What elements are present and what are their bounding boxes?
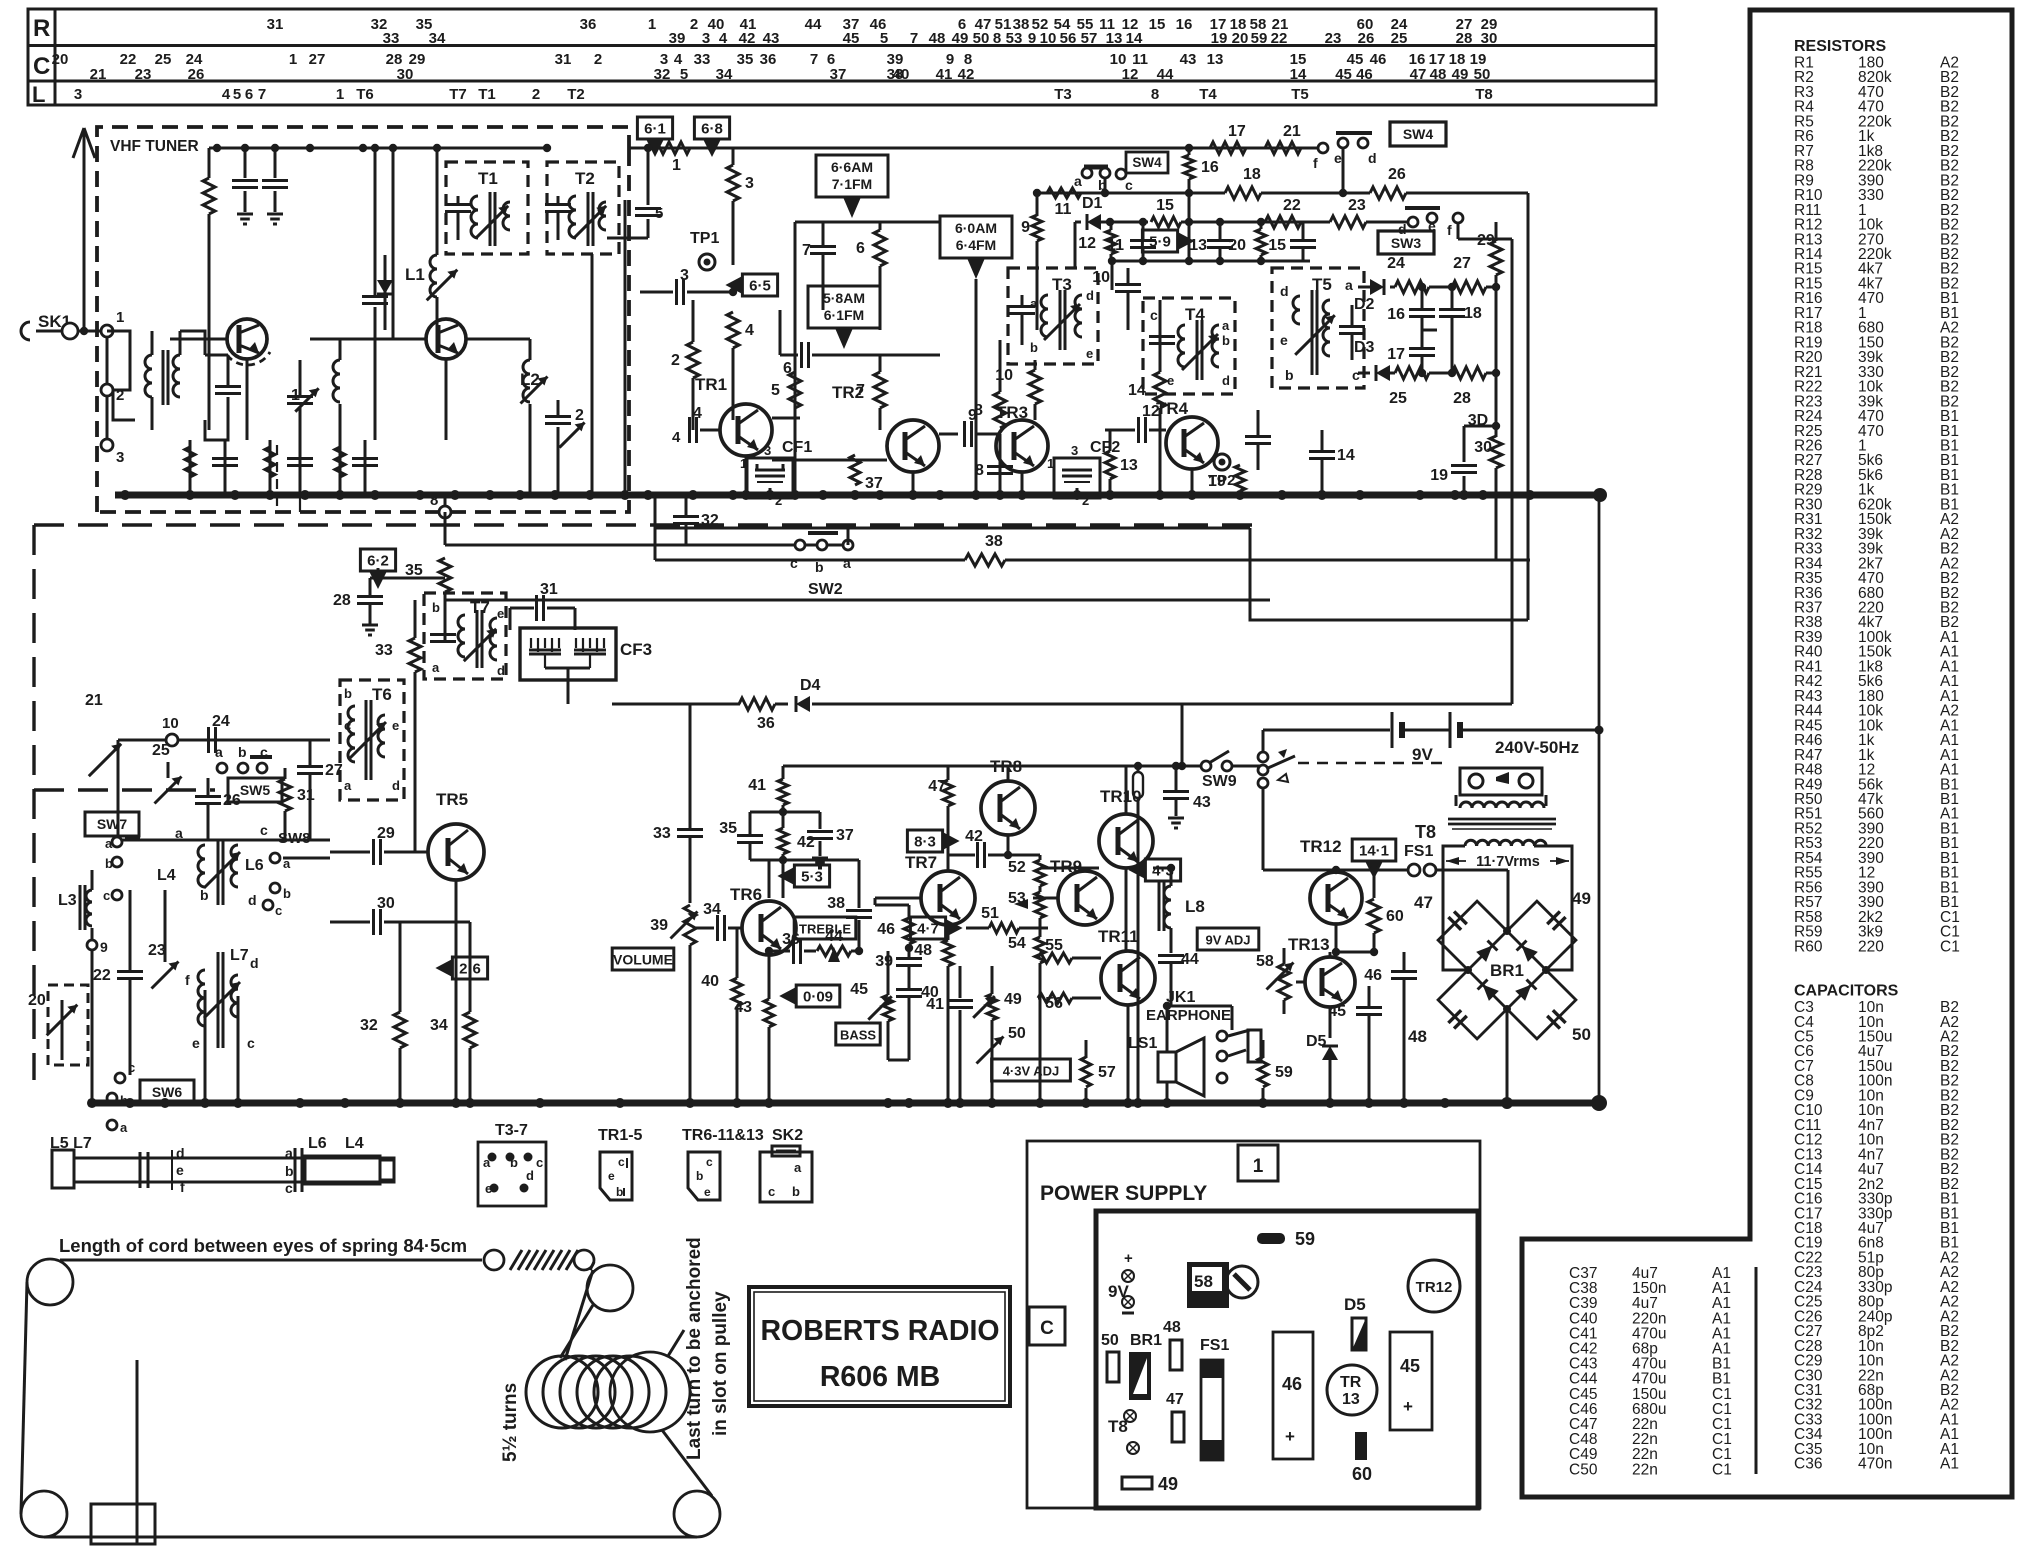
svg-text:7: 7 <box>810 51 818 68</box>
svg-text:13: 13 <box>1120 457 1138 474</box>
svg-text:48: 48 <box>929 30 946 47</box>
svg-text:43: 43 <box>734 999 752 1016</box>
svg-text:c: c <box>103 888 110 903</box>
svg-text:b: b <box>432 600 440 615</box>
svg-text:EARPHONE: EARPHONE <box>1146 1007 1231 1024</box>
svg-text:e: e <box>392 718 399 733</box>
svg-text:2: 2 <box>690 16 698 33</box>
svg-text:55: 55 <box>1045 937 1063 954</box>
svg-text:59: 59 <box>1251 30 1268 47</box>
svg-text:25: 25 <box>152 742 170 759</box>
svg-text:19: 19 <box>1430 467 1448 484</box>
svg-text:33: 33 <box>694 51 711 68</box>
svg-text:4·7: 4·7 <box>917 921 939 938</box>
svg-text:SK2: SK2 <box>772 1127 803 1144</box>
svg-text:48: 48 <box>1430 66 1447 83</box>
svg-text:Length of cord between eyes of: Length of cord between eyes of spring 84… <box>59 1235 467 1256</box>
svg-text:50: 50 <box>1474 66 1491 83</box>
svg-text:49: 49 <box>1004 991 1022 1008</box>
svg-text:12: 12 <box>1142 403 1160 420</box>
svg-text:46: 46 <box>1364 967 1382 984</box>
svg-text:42: 42 <box>958 66 975 83</box>
svg-text:37: 37 <box>865 475 883 492</box>
svg-text:49: 49 <box>1158 1474 1178 1494</box>
svg-text:5: 5 <box>771 382 780 399</box>
svg-text:VOLUME: VOLUME <box>613 952 673 968</box>
svg-text:4·3V ADJ: 4·3V ADJ <box>1003 1064 1060 1079</box>
svg-text:TR6: TR6 <box>730 885 762 904</box>
svg-text:48: 48 <box>1163 1319 1181 1336</box>
svg-text:8: 8 <box>975 462 984 479</box>
svg-text:e: e <box>176 1162 184 1178</box>
svg-text:52: 52 <box>1008 859 1026 876</box>
svg-text:c: c <box>247 1035 255 1051</box>
svg-text:T2: T2 <box>575 169 595 188</box>
svg-text:4: 4 <box>693 405 702 422</box>
svg-text:SW3: SW3 <box>1391 235 1422 251</box>
svg-text:BASS: BASS <box>840 1028 876 1043</box>
svg-text:c: c <box>706 1155 713 1169</box>
svg-text:T3-7: T3-7 <box>495 1122 528 1139</box>
svg-text:45: 45 <box>1328 1003 1346 1020</box>
svg-text:C36: C36 <box>1794 1456 1822 1473</box>
svg-text:17: 17 <box>1387 346 1405 363</box>
svg-text:5·3: 5·3 <box>801 869 823 886</box>
svg-text:44: 44 <box>825 928 843 945</box>
svg-text:48: 48 <box>914 942 932 959</box>
svg-text:SW6: SW6 <box>152 1084 183 1100</box>
svg-text:2: 2 <box>575 407 584 424</box>
svg-text:26: 26 <box>1388 166 1406 183</box>
svg-text:13: 13 <box>1342 1391 1360 1408</box>
svg-text:f: f <box>185 972 190 988</box>
svg-text:39: 39 <box>669 30 686 47</box>
svg-text:38: 38 <box>985 533 1003 550</box>
svg-text:D1: D1 <box>1082 195 1103 212</box>
svg-text:c: c <box>618 1155 625 1169</box>
svg-text:C1: C1 <box>1940 938 1960 955</box>
svg-text:34: 34 <box>430 1017 448 1034</box>
svg-text:5: 5 <box>880 30 888 47</box>
svg-text:T5: T5 <box>1312 275 1332 294</box>
svg-text:C50: C50 <box>1569 1461 1598 1478</box>
svg-text:51: 51 <box>981 905 999 922</box>
svg-text:TR6-11&13: TR6-11&13 <box>682 1127 764 1144</box>
svg-text:L4: L4 <box>157 867 176 884</box>
svg-text:4: 4 <box>672 429 681 446</box>
svg-text:15: 15 <box>1156 197 1174 214</box>
svg-text:26: 26 <box>1358 30 1375 47</box>
svg-text:18: 18 <box>1464 305 1482 322</box>
svg-text:23: 23 <box>135 66 152 83</box>
svg-text:D2: D2 <box>1354 296 1375 313</box>
svg-text:6·1FM: 6·1FM <box>824 307 864 323</box>
svg-text:6·6AM: 6·6AM <box>831 159 873 175</box>
svg-text:10: 10 <box>1092 269 1110 286</box>
svg-text:TR13: TR13 <box>1288 935 1330 954</box>
svg-text:L1: L1 <box>405 265 425 284</box>
svg-text:9V ADJ: 9V ADJ <box>1205 933 1250 948</box>
svg-text:BR1: BR1 <box>1490 961 1524 980</box>
svg-text:FS1: FS1 <box>1200 1337 1229 1354</box>
svg-text:2: 2 <box>594 51 602 68</box>
svg-text:45: 45 <box>843 30 860 47</box>
svg-text:24: 24 <box>1387 255 1405 272</box>
svg-text:T5: T5 <box>1291 86 1309 103</box>
svg-text:b: b <box>616 1185 623 1199</box>
svg-text:c: c <box>128 1060 135 1075</box>
svg-text:5·9: 5·9 <box>1149 234 1171 251</box>
svg-text:7: 7 <box>802 242 811 259</box>
svg-text:1: 1 <box>672 157 681 174</box>
svg-text:30: 30 <box>1474 439 1492 456</box>
svg-text:R606 MB: R606 MB <box>820 1361 940 1393</box>
svg-text:T8: T8 <box>1475 86 1493 103</box>
svg-text:SW5: SW5 <box>240 782 271 798</box>
svg-text:40: 40 <box>701 973 719 990</box>
svg-text:36: 36 <box>757 715 775 732</box>
svg-text:16: 16 <box>1387 306 1405 323</box>
svg-text:31: 31 <box>297 787 315 804</box>
svg-text:b: b <box>283 886 291 901</box>
svg-text:33: 33 <box>653 825 671 842</box>
svg-text:50: 50 <box>973 30 990 47</box>
svg-text:d: d <box>1280 283 1289 299</box>
svg-text:43: 43 <box>1180 51 1197 68</box>
svg-text:13: 13 <box>1106 30 1123 47</box>
svg-text:a: a <box>1345 277 1353 293</box>
svg-text:a: a <box>1222 318 1230 333</box>
svg-text:33: 33 <box>375 642 393 659</box>
svg-text:28: 28 <box>1453 390 1471 407</box>
svg-text:BR1: BR1 <box>1130 1332 1162 1349</box>
svg-text:1: 1 <box>116 309 124 326</box>
svg-text:34: 34 <box>429 30 446 47</box>
svg-text:VHF TUNER: VHF TUNER <box>110 138 199 155</box>
svg-text:27: 27 <box>309 51 326 68</box>
svg-text:T1: T1 <box>478 169 498 188</box>
svg-text:5: 5 <box>233 86 241 103</box>
svg-text:60: 60 <box>1352 1464 1372 1484</box>
svg-text:SW2: SW2 <box>808 581 843 598</box>
svg-text:d: d <box>1222 373 1230 388</box>
svg-text:e: e <box>497 606 504 621</box>
svg-text:e: e <box>608 1169 615 1183</box>
svg-text:31: 31 <box>267 16 284 33</box>
svg-text:A1: A1 <box>1940 1456 1959 1473</box>
svg-text:C1: C1 <box>1712 1461 1732 1478</box>
svg-text:42: 42 <box>739 30 756 47</box>
svg-text:b: b <box>1222 333 1230 348</box>
svg-text:0·09: 0·09 <box>803 989 833 1006</box>
svg-text:57: 57 <box>1098 1064 1116 1081</box>
svg-text:40: 40 <box>893 66 910 83</box>
svg-text:36: 36 <box>760 51 777 68</box>
svg-text:42: 42 <box>965 828 983 845</box>
svg-text:in slot on pulley: in slot on pulley <box>710 1291 731 1436</box>
svg-text:L7: L7 <box>230 947 249 964</box>
svg-text:R60: R60 <box>1794 938 1823 955</box>
svg-text:L6: L6 <box>245 857 264 874</box>
svg-text:a: a <box>794 1160 802 1175</box>
svg-text:T1: T1 <box>478 86 496 103</box>
svg-text:e: e <box>1280 332 1288 348</box>
svg-text:50: 50 <box>1008 1025 1026 1042</box>
svg-text:8: 8 <box>974 402 983 419</box>
svg-text:33: 33 <box>383 30 400 47</box>
svg-text:30: 30 <box>377 895 395 912</box>
svg-text:T2: T2 <box>567 86 585 103</box>
svg-text:20: 20 <box>52 51 69 68</box>
svg-text:1: 1 <box>289 51 297 68</box>
svg-text:a: a <box>105 836 113 851</box>
svg-text:32: 32 <box>701 512 719 529</box>
svg-text:41: 41 <box>936 66 953 83</box>
svg-text:8: 8 <box>993 30 1001 47</box>
svg-text:28: 28 <box>1456 30 1473 47</box>
svg-text:49: 49 <box>952 30 969 47</box>
svg-text:6·4FM: 6·4FM <box>956 237 996 253</box>
svg-text:3: 3 <box>764 443 771 458</box>
svg-text:1: 1 <box>740 456 747 471</box>
svg-text:1: 1 <box>1253 1156 1264 1177</box>
svg-text:FS1: FS1 <box>1404 843 1433 860</box>
svg-text:50: 50 <box>1101 1332 1119 1349</box>
svg-text:16: 16 <box>1176 16 1193 33</box>
svg-text:d: d <box>1368 150 1377 166</box>
svg-text:TR1: TR1 <box>695 375 727 394</box>
svg-text:a: a <box>175 825 183 841</box>
svg-text:54: 54 <box>1008 935 1026 952</box>
svg-text:CF3: CF3 <box>620 640 652 659</box>
svg-text:10: 10 <box>995 367 1013 384</box>
svg-text:f: f <box>1447 222 1452 238</box>
svg-text:20: 20 <box>1232 30 1249 47</box>
svg-text:c: c <box>768 1184 775 1199</box>
svg-text:9: 9 <box>1021 219 1030 236</box>
svg-text:c: c <box>260 744 268 760</box>
svg-text:31: 31 <box>555 51 572 68</box>
svg-text:41: 41 <box>748 777 766 794</box>
svg-text:53: 53 <box>1006 30 1023 47</box>
svg-text:T6: T6 <box>372 685 392 704</box>
svg-text:43: 43 <box>763 30 780 47</box>
svg-text:e: e <box>704 1185 711 1199</box>
svg-text:15: 15 <box>1268 237 1286 254</box>
svg-text:c: c <box>1352 367 1360 383</box>
svg-text:RESISTORS: RESISTORS <box>1794 38 1887 55</box>
svg-text:26: 26 <box>188 66 205 83</box>
svg-text:18: 18 <box>1243 166 1261 183</box>
svg-text:32: 32 <box>654 66 671 83</box>
svg-text:T6: T6 <box>356 86 374 103</box>
svg-text:6·8: 6·8 <box>701 121 723 138</box>
svg-text:d: d <box>392 778 400 793</box>
svg-text:TR8: TR8 <box>990 757 1022 776</box>
svg-text:20: 20 <box>28 992 46 1009</box>
svg-text:11: 11 <box>1055 201 1072 218</box>
svg-text:CAPACITORS: CAPACITORS <box>1794 983 1899 1000</box>
svg-text:CF1: CF1 <box>782 439 812 456</box>
svg-text:e: e <box>192 1035 200 1051</box>
svg-text:e: e <box>1167 373 1174 388</box>
svg-text:22n: 22n <box>1632 1461 1658 1478</box>
svg-text:42: 42 <box>797 834 815 851</box>
svg-text:240V-50Hz: 240V-50Hz <box>1495 738 1579 757</box>
svg-text:b: b <box>200 887 209 903</box>
svg-text:f: f <box>180 1179 185 1195</box>
svg-text:c: c <box>275 903 282 918</box>
svg-text:23: 23 <box>1348 197 1366 214</box>
svg-text:3: 3 <box>702 30 710 47</box>
svg-text:27: 27 <box>1453 255 1471 272</box>
svg-text:41: 41 <box>926 996 944 1013</box>
svg-text:L8: L8 <box>1185 897 1205 916</box>
svg-text:470n: 470n <box>1858 1456 1892 1473</box>
svg-text:a: a <box>483 1155 491 1170</box>
svg-text:6·0AM: 6·0AM <box>955 220 997 236</box>
svg-text:21: 21 <box>90 66 107 83</box>
svg-text:C: C <box>1040 1318 1054 1339</box>
svg-text:SW4: SW4 <box>1403 126 1434 142</box>
svg-text:a: a <box>344 778 352 793</box>
svg-text:46: 46 <box>1282 1374 1302 1394</box>
svg-text:TR11: TR11 <box>1098 927 1139 946</box>
svg-text:f: f <box>1313 155 1318 171</box>
svg-text:3: 3 <box>116 449 124 466</box>
svg-text:TR7: TR7 <box>905 853 937 872</box>
svg-text:a: a <box>1030 296 1038 311</box>
svg-text:11: 11 <box>1107 237 1124 254</box>
svg-text:+: + <box>1124 1250 1133 1267</box>
svg-text:6·5: 6·5 <box>749 278 771 295</box>
svg-text:59: 59 <box>1295 1229 1315 1249</box>
svg-text:C: C <box>33 53 50 80</box>
svg-text:21: 21 <box>85 692 103 709</box>
svg-text:3: 3 <box>1071 443 1078 458</box>
svg-text:57: 57 <box>1081 30 1098 47</box>
svg-text:c: c <box>1125 177 1133 193</box>
svg-text:28: 28 <box>333 592 351 609</box>
svg-text:25: 25 <box>1391 30 1408 47</box>
svg-text:56: 56 <box>1060 30 1077 47</box>
svg-text:13: 13 <box>1207 51 1224 68</box>
svg-text:T8: T8 <box>1415 822 1436 842</box>
svg-text:25: 25 <box>1389 390 1407 407</box>
svg-text:35: 35 <box>737 51 754 68</box>
svg-text:7: 7 <box>910 30 918 47</box>
svg-text:d: d <box>497 663 505 678</box>
svg-text:26: 26 <box>223 792 241 809</box>
svg-text:45 46: 45 46 <box>1335 66 1373 83</box>
svg-text:4: 4 <box>719 30 728 47</box>
svg-text:1: 1 <box>648 16 656 33</box>
svg-text:3: 3 <box>745 175 754 192</box>
svg-text:34: 34 <box>716 66 733 83</box>
svg-text:c: c <box>1150 307 1158 323</box>
svg-text:b: b <box>1285 367 1294 383</box>
svg-text:b: b <box>1030 340 1038 355</box>
svg-text:L4: L4 <box>345 1135 364 1152</box>
svg-text:37: 37 <box>836 827 854 844</box>
svg-text:T3: T3 <box>1054 86 1072 103</box>
svg-text:39: 39 <box>875 953 893 970</box>
svg-text:6: 6 <box>245 86 253 103</box>
svg-text:58: 58 <box>1194 1272 1213 1291</box>
svg-text:44: 44 <box>805 16 822 33</box>
svg-text:36: 36 <box>782 931 800 948</box>
svg-text:5: 5 <box>680 66 688 83</box>
svg-text:1: 1 <box>336 86 344 103</box>
svg-text:5½ turns: 5½ turns <box>500 1383 521 1462</box>
svg-text:44: 44 <box>1181 951 1199 968</box>
svg-text:7: 7 <box>258 86 266 103</box>
svg-text:220: 220 <box>1858 938 1884 955</box>
svg-text:e: e <box>485 1181 492 1196</box>
svg-text:25: 25 <box>155 51 172 68</box>
svg-text:30: 30 <box>397 66 414 83</box>
svg-text:b: b <box>238 744 247 760</box>
svg-text:a: a <box>120 1120 128 1135</box>
svg-text:9V: 9V <box>1108 1282 1129 1301</box>
svg-text:4: 4 <box>745 322 754 339</box>
svg-text:D5: D5 <box>1344 1295 1366 1314</box>
svg-text:49: 49 <box>1452 66 1469 83</box>
svg-text:d: d <box>176 1145 185 1161</box>
svg-text:29: 29 <box>377 825 395 842</box>
svg-text:14: 14 <box>1126 30 1143 47</box>
svg-text:2: 2 <box>671 352 680 369</box>
svg-text:a: a <box>1074 173 1082 189</box>
svg-text:SW9: SW9 <box>1202 773 1237 790</box>
svg-text:19: 19 <box>1211 30 1228 47</box>
svg-text:14: 14 <box>1290 66 1307 83</box>
svg-text:D4: D4 <box>800 677 821 694</box>
svg-text:47: 47 <box>1166 1391 1184 1408</box>
svg-text:9: 9 <box>1028 30 1036 47</box>
svg-text:10: 10 <box>162 715 179 732</box>
svg-text:L6: L6 <box>308 1135 327 1152</box>
svg-text:12: 12 <box>1078 235 1096 252</box>
svg-text:20: 20 <box>1228 237 1246 254</box>
svg-text:Last turn to be anchored: Last turn to be anchored <box>684 1237 705 1460</box>
svg-text:T7: T7 <box>449 86 467 103</box>
svg-text:T7: T7 <box>470 598 490 617</box>
svg-text:12: 12 <box>1122 66 1139 83</box>
svg-text:23: 23 <box>148 942 166 959</box>
svg-text:22: 22 <box>93 967 111 984</box>
svg-text:47: 47 <box>1414 893 1433 912</box>
svg-text:L: L <box>32 82 45 107</box>
svg-text:22: 22 <box>1283 197 1301 214</box>
svg-text:45: 45 <box>1400 1356 1420 1376</box>
svg-text:b: b <box>510 1155 518 1170</box>
svg-text:e: e <box>1086 346 1093 361</box>
svg-text:24: 24 <box>212 713 230 730</box>
svg-text:a: a <box>215 744 223 760</box>
svg-text:2: 2 <box>532 86 540 103</box>
svg-text:17: 17 <box>1228 123 1246 140</box>
svg-text:SW7: SW7 <box>97 816 128 832</box>
svg-text:1: 1 <box>1047 456 1054 471</box>
svg-text:37: 37 <box>830 66 847 83</box>
svg-text:+: + <box>1285 1427 1295 1446</box>
svg-text:TR4: TR4 <box>1156 399 1189 418</box>
svg-text:+: + <box>1403 1397 1413 1416</box>
svg-text:L3: L3 <box>58 892 77 909</box>
svg-text:a: a <box>432 660 440 675</box>
svg-text:14: 14 <box>1337 447 1355 464</box>
